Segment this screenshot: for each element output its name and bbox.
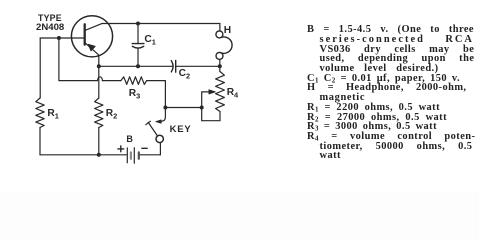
label R1 bbox=[47, 109, 58, 119]
wire: collector top rail to headphone bbox=[102, 23, 220, 25]
wire hop over emitter line bbox=[98, 77, 103, 81]
headphone H top terminal circle bbox=[216, 31, 223, 38]
battery B short plate 1 bbox=[130, 152, 132, 158]
label R3 bbox=[129, 89, 140, 99]
node: KEY junction bbox=[163, 106, 167, 110]
parts list text block bbox=[307, 25, 479, 161]
transistor Q1 emitter lead bbox=[85, 43, 99, 67]
transistor Q1 body circle bbox=[71, 16, 112, 57]
transistor Q1 base bar bbox=[84, 24, 86, 44]
capacitor C1 curved plate bbox=[132, 46, 143, 48]
wire: R2 bottom to bottom rail bbox=[98, 128, 100, 155]
wire: emitter vertical down to R2 bbox=[98, 66, 100, 98]
node: wiper junction bbox=[200, 106, 204, 110]
battery B short plate 2 bbox=[138, 152, 140, 158]
capacitor C2 straight plate bbox=[175, 61, 177, 73]
battery B long plate 1 bbox=[126, 148, 128, 163]
label C1 bbox=[144, 35, 155, 45]
label R2 bbox=[106, 109, 117, 119]
node: base junction bbox=[57, 36, 61, 40]
label R4 bbox=[227, 88, 238, 98]
wire: R3 right end to KEY node bbox=[147, 81, 166, 108]
resistor R3 zigzag bbox=[121, 77, 147, 85]
label TYPE bbox=[38, 14, 62, 23]
headphone H earpiece arc bbox=[221, 37, 232, 53]
wire: mid rail emitter node to C2 bbox=[99, 65, 172, 67]
KEY terminal circle bbox=[156, 135, 163, 142]
node: C1 bottom junction bbox=[136, 64, 140, 68]
label KEY bbox=[170, 124, 192, 133]
KEY lever arm bbox=[148, 122, 157, 135]
wire: KEY circle down to battery bbox=[159, 143, 161, 155]
resistor R1 zigzag bbox=[36, 98, 44, 128]
KEY knob tick bbox=[146, 121, 151, 125]
KEY fixed contact stub bbox=[162, 108, 166, 122]
wire: KEY node to wiper node bbox=[165, 107, 201, 109]
wire: top rail corner down to headphone terminal bbox=[219, 24, 221, 31]
node: C1 top junction bbox=[136, 22, 140, 26]
wire: bottom rail left bbox=[40, 154, 126, 156]
wire: left vertical down to R1 bbox=[39, 38, 41, 98]
potentiometer R4 wiper arrowhead bbox=[209, 90, 216, 94]
node: emitter junction bbox=[97, 64, 101, 68]
wire: headphone bottom to node bbox=[219, 59, 221, 66]
wire: R4 top lead bbox=[219, 66, 221, 71]
wire: base wire from transistor to left corner bbox=[40, 37, 83, 39]
transistor Q1 emitter arrow (PNP) bbox=[88, 44, 95, 51]
headphone H bottom terminal circle bbox=[216, 52, 223, 59]
battery plus sign bbox=[118, 146, 124, 152]
potentiometer R4 zigzag bbox=[216, 72, 225, 112]
label B bbox=[126, 135, 133, 144]
label C2 bbox=[179, 69, 190, 79]
wire: battery to KEY riser bbox=[140, 154, 161, 156]
wire: hop to R3 left end bbox=[102, 80, 121, 82]
resistor R2 zigzag bbox=[95, 98, 103, 128]
potentiometer R4 wiper tail bbox=[202, 92, 209, 108]
wire: base junction down to R3 row bbox=[59, 38, 97, 81]
wire: R4 bottom lead loop to wiper node bbox=[202, 108, 220, 121]
label 2N408 bbox=[36, 23, 64, 33]
label H bbox=[224, 26, 231, 36]
wire: C2 to R4 top node bbox=[176, 65, 220, 67]
wire: C1 top lead bbox=[137, 24, 139, 44]
capacitor C1 straight plate bbox=[132, 43, 144, 45]
battery B long plate 2 bbox=[133, 148, 135, 164]
node: R2 bottom junction bbox=[97, 153, 101, 157]
battery minus sign bbox=[142, 147, 147, 149]
KEY fixed contact arrowhead bbox=[156, 120, 161, 123]
transistor Q1 collector lead bbox=[85, 24, 102, 31]
wire: R1 bottom to bottom rail bbox=[39, 128, 41, 155]
node: R4 top junction bbox=[218, 64, 222, 68]
wire: C1 bottom lead bbox=[137, 48, 139, 66]
capacitor C2 curved plate bbox=[171, 61, 173, 72]
